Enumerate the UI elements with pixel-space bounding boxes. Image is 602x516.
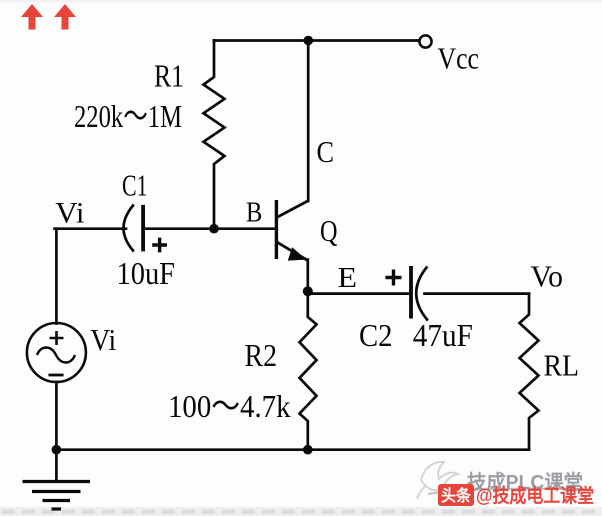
- svg-text:Vi: Vi: [55, 197, 84, 230]
- source Vi circle: [27, 323, 86, 382]
- svg-text:C2: C2: [359, 317, 393, 353]
- transistor Q1 base bar: [275, 200, 278, 259]
- wire emitter rail (node E to C2): [308, 292, 410, 295]
- junction dot emitter node E: [303, 286, 313, 296]
- resistor RL body (zigzag): [520, 294, 539, 450]
- ground stem: [55, 450, 58, 481]
- svg-text:10uF: 10uF: [117, 255, 176, 291]
- svg-text:@技成电工课堂: @技成电工课堂: [476, 484, 594, 507]
- red marker arrow 1 (top-left): [21, 4, 43, 30]
- svg-text:RL: RL: [544, 347, 580, 382]
- ground bar 4: [52, 507, 62, 510]
- wire source to bottom rail: [55, 382, 58, 450]
- source Vi sine: [37, 348, 75, 363]
- capacitor C2 curved plate: [416, 268, 427, 320]
- terminal Vcc (open circle): [419, 35, 431, 47]
- wire top rail (R1 top to Vcc terminal): [214, 39, 419, 42]
- transistor Q1 emitter arrow: [288, 247, 306, 260]
- capacitor C2 straight plate: [409, 266, 413, 319]
- svg-text:100～4.7k: 100～4.7k: [168, 388, 291, 424]
- source Vi plus: [50, 331, 64, 345]
- transistor Q1 emitter diagonal: [277, 242, 308, 260]
- svg-text:47uF: 47uF: [413, 317, 473, 353]
- junction dot collector/top-rail node: [304, 36, 314, 46]
- watermark bird logo: [417, 462, 458, 499]
- svg-text:R2: R2: [245, 337, 278, 373]
- source Vi minus: [49, 374, 64, 377]
- junction dot ground node left: [52, 445, 62, 455]
- resistor R2 body (zigzag): [300, 294, 317, 450]
- faint top edge band: [0, 0, 602, 3]
- svg-text:头条: 头条: [441, 486, 472, 505]
- svg-text:R1: R1: [154, 58, 184, 94]
- transistor Q1 collector diagonal: [277, 201, 308, 218]
- capacitor C2 polarity plus: [386, 270, 402, 286]
- svg-text:220k～1M: 220k～1M: [74, 98, 182, 134]
- wire emitter vertical to node E: [306, 260, 309, 292]
- svg-text:E: E: [338, 263, 358, 294]
- capacitor C1 straight plate: [141, 205, 145, 252]
- capacitor C1 curved plate: [124, 206, 134, 251]
- wire collector vertical: [307, 41, 310, 202]
- ground bar 2: [32, 490, 81, 493]
- svg-text:C1: C1: [122, 168, 148, 203]
- wire bottom rail: [56, 448, 529, 451]
- ground bar 1: [23, 480, 91, 483]
- watermark swoosh underline: [428, 489, 584, 494]
- junction dot R2 bottom node: [303, 445, 313, 455]
- watermark badge 头条: [438, 484, 474, 506]
- ground bar 3: [43, 499, 71, 502]
- bottom dashed strip: [0, 507, 602, 516]
- wire base (C1 to transistor base): [145, 227, 275, 230]
- svg-text:C: C: [317, 134, 335, 169]
- resistor R1 body (zigzag): [204, 41, 225, 229]
- wire input (Vi to C1): [55, 227, 127, 230]
- svg-text:Q: Q: [320, 213, 338, 248]
- wire output (C2 to Vo corner): [425, 292, 530, 295]
- svg-text:Vo: Vo: [531, 258, 564, 293]
- junction dot base node B: [209, 224, 219, 234]
- svg-text:Vi: Vi: [90, 322, 116, 357]
- capacitor C1 polarity plus: [152, 238, 167, 253]
- svg-text:Vcc: Vcc: [438, 40, 480, 75]
- wire left column (input corner down to source): [55, 229, 58, 324]
- red marker arrow 2 (top-left): [54, 4, 76, 30]
- svg-text:B: B: [246, 197, 262, 228]
